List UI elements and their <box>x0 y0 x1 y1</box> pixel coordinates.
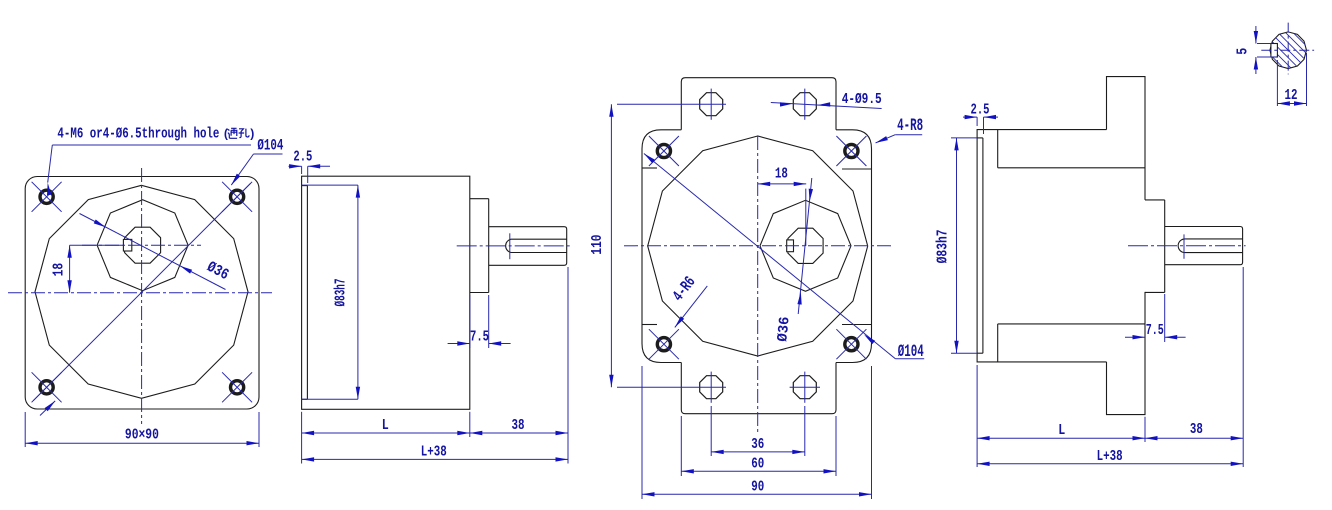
view 2 bottom extensions <box>302 267 568 464</box>
view 3 vertical centerline <box>757 136 759 433</box>
view 4 bearing boss <box>1145 200 1165 293</box>
view 4 bottom extensions <box>977 267 1243 467</box>
detail dim 12 extensions <box>1277 53 1306 106</box>
svg-text:36: 36 <box>751 437 764 453</box>
view 2 shaft keyway <box>506 239 567 252</box>
view 3 horizontal centerline <box>624 245 893 247</box>
view 4 dim 2.5 line+arrows <box>963 115 998 119</box>
view 3 hole cross bottom-left <box>649 329 679 359</box>
view 2 bearing boss <box>470 199 489 293</box>
detail keyway notch <box>1271 44 1278 58</box>
view 2 dim L text <box>382 418 389 434</box>
detail dim 12 line+arrows <box>1277 101 1306 105</box>
detail dim 5 line+arrows <box>1254 26 1258 74</box>
view 2 output shaft <box>489 227 567 266</box>
view 4 dim 7.5 extensions <box>1164 294 1166 342</box>
view 1 mounting flange square 90x90 <box>25 177 259 410</box>
view 4 flange top tab <box>1107 77 1146 200</box>
svg-text:38: 38 <box>1190 422 1203 438</box>
view 4 dim L text <box>1058 423 1065 439</box>
view 3 dim 90 extensions <box>642 366 872 499</box>
detail dim 5 text <box>1236 48 1252 55</box>
view 4 flange bottom tab <box>1107 292 1146 415</box>
view 4 shaft axis centerline <box>1128 245 1246 247</box>
view 1 hole cross top-right <box>222 182 252 212</box>
view 3 dim dia36 text <box>775 316 793 342</box>
view 3 dim 60 text <box>751 457 764 473</box>
view 3 pad inner edges <box>642 168 872 325</box>
view 4 dim L+38 line+arrows <box>977 462 1243 466</box>
view 3 dim 90 text <box>751 479 764 495</box>
detail crosshairs <box>1261 23 1314 75</box>
svg-text:Ø83h7: Ø83h7 <box>334 279 350 307</box>
view 2 dim 7.5 line+arrows <box>448 341 511 345</box>
svg-text:Ø83h7: Ø83h7 <box>936 229 952 263</box>
view 1 thread label underline + leader <box>47 145 251 195</box>
view 2 dim 7.5 text <box>470 329 489 345</box>
view 1 dim 90x90 text <box>125 428 159 444</box>
view 3 tab hole bottom-left <box>700 376 723 399</box>
view 4 dim 38 line+arrows <box>1145 436 1243 440</box>
view 1 bearing boss circle dia36 (octagon) <box>97 200 188 291</box>
svg-text:90: 90 <box>751 479 764 495</box>
view 1 vertical centerline <box>141 168 143 424</box>
view 3 tab hole crosshairs <box>696 89 820 403</box>
view 4 dim 38 text <box>1190 422 1203 438</box>
view 1 label dia104 <box>257 137 283 155</box>
view 2 keyway vertical centerline <box>509 233 511 259</box>
svg-text:7.5: 7.5 <box>470 329 489 345</box>
view 3 dim 60 extensions <box>681 416 836 476</box>
svg-text:110: 110 <box>590 235 606 255</box>
view 3 bolt hole top-left <box>657 144 670 157</box>
view 3 dim 36 line+arrows <box>711 450 805 454</box>
svg-text:18: 18 <box>52 263 68 277</box>
view 4 dim dia83h7 text <box>936 229 952 263</box>
view 3 label 4-R6 <box>669 273 707 327</box>
view 4 dim dia83h7 extensions <box>951 138 977 353</box>
view 1 dim 90x90 line <box>25 441 259 445</box>
view 2 dim 38 text <box>512 418 525 434</box>
view 1 dim dia36 line <box>80 214 226 290</box>
view 3 gearbox body circle (12-gon) <box>648 136 868 356</box>
view 3 dim dia36 line <box>798 178 812 314</box>
view 1 bolt hole bottom-right <box>231 381 244 394</box>
view 3 tab hole top-right <box>793 93 816 116</box>
view 3 tab hole top-left <box>700 93 723 116</box>
view 1 hole cross top-left <box>32 182 62 212</box>
view 4 dim 7.5 text <box>1146 323 1164 339</box>
view 3 dim 110 line+arrows <box>609 104 613 387</box>
svg-text:4-M6 or4-Ø6.5through hole: 4-M6 or4-Ø6.5through hole <box>57 126 219 142</box>
view 3 bottom mounting tab <box>681 363 836 414</box>
view 4 dim dia83h7 line+arrows <box>954 138 958 353</box>
view 1 horizontal centerline <box>8 292 272 294</box>
view 3 dim 110 extensions <box>617 104 696 387</box>
svg-text:): ) <box>249 127 256 141</box>
view 1 output shaft with keyway (octagon) <box>123 227 160 263</box>
svg-text:12: 12 <box>1285 88 1298 104</box>
svg-text:60: 60 <box>751 457 764 473</box>
view 4 body outline <box>977 130 1106 362</box>
view 4 dim 2.5 text <box>971 103 990 119</box>
view 2 dim 7.5 extensions <box>470 295 489 348</box>
view 3 dim 18 text <box>775 167 788 183</box>
view 3 dim 4-dia9.5 text <box>842 92 882 108</box>
view 1 bolt hole bottom-left <box>40 381 53 394</box>
view 3 hole cross bottom-right <box>836 329 866 359</box>
view 3 dim dia104 arrows <box>644 154 875 345</box>
view 2 shaft axis centerline <box>457 245 572 247</box>
view 1 gearbox body circle (12-gon) <box>35 185 248 398</box>
svg-text:4-Ø9.5: 4-Ø9.5 <box>842 92 882 108</box>
svg-text:2.5: 2.5 <box>293 150 312 166</box>
svg-text:38: 38 <box>512 418 525 434</box>
view 1 dim dia36 text <box>204 258 232 284</box>
view 1 dim 18 extension <box>70 244 123 246</box>
view 1 bolt hole top-right <box>231 190 244 203</box>
svg-text:Ø104: Ø104 <box>898 342 924 362</box>
view 4 tab edge lines <box>998 130 1145 362</box>
view 4 spigot register lip <box>977 138 983 353</box>
view 3 dim 60 line+arrows <box>681 469 836 473</box>
view 1 dim 18 text <box>52 263 68 277</box>
view 1 dim dia36 arrows <box>94 220 192 274</box>
view 2 gearbox body rectangle <box>302 176 470 409</box>
svg-text:7.5: 7.5 <box>1146 323 1164 339</box>
view 3 dim 36 extensions <box>711 406 805 456</box>
view 2 dim L+38 line+arrows <box>302 457 568 461</box>
svg-text:Ø36: Ø36 <box>775 316 793 342</box>
view 3 dim 4-dia9.5 leader <box>771 102 882 108</box>
svg-text:L: L <box>1058 423 1065 439</box>
svg-text:2.5: 2.5 <box>971 103 990 119</box>
svg-text:Ø104: Ø104 <box>257 137 283 155</box>
view 3 label 4-R8 <box>876 116 924 143</box>
view 2 dim 2.5 line+arrows <box>289 164 331 168</box>
view 4 dim 2.5 extensions <box>977 117 983 134</box>
view 1 bolt hole top-left <box>40 190 53 203</box>
svg-text:L+38: L+38 <box>1097 449 1123 465</box>
view 1 dim 90x90 extensions <box>25 412 259 447</box>
view 3 dim 18 extension <box>805 189 807 246</box>
view 1 bolt-circle diagonal <box>33 183 250 400</box>
view 4 keyway vertical centerline <box>1183 234 1185 258</box>
svg-text:4-R6: 4-R6 <box>669 273 699 305</box>
view 1 hole cross bottom-left <box>32 372 62 402</box>
detail dim 5 extensions <box>1257 44 1277 58</box>
view 3 square body with R8 corners <box>642 130 872 363</box>
view 1 thread label <box>57 126 255 142</box>
view 1 dia104 leader with arrow <box>231 154 282 185</box>
view 3 dim 18 line+arrows <box>758 182 807 186</box>
view 3 dim dia36 arrows <box>797 189 813 305</box>
view 2 dim L+38 text <box>421 445 447 461</box>
view 2 dim dia83h7 extensions <box>301 185 358 399</box>
view 3 top mounting tab <box>681 78 836 130</box>
view 3 bolt hole bottom-left <box>657 338 670 351</box>
view 3 bolt hole top-right <box>845 144 858 157</box>
detail dim 12 text <box>1285 88 1298 104</box>
view 3 bearing boss circle dia36 (octagon) <box>760 200 851 291</box>
detail hatching <box>1270 9 1307 91</box>
view 1 shaft horizontal centerline <box>82 244 201 246</box>
view 3 output shaft with keyway (octagon) <box>787 228 823 263</box>
view 2 spigot register lip <box>302 186 308 400</box>
svg-text:5: 5 <box>1236 48 1252 55</box>
view 3 dim 36 text <box>751 437 764 453</box>
svg-text:L: L <box>382 418 389 434</box>
svg-text:90×90: 90×90 <box>125 428 159 444</box>
view 4 dim 7.5 line+arrows <box>1125 335 1186 339</box>
view 4 dim L line+arrows <box>977 436 1145 440</box>
view 3 hole cross top-left <box>649 136 679 166</box>
view 2 dim 2.5 text <box>293 150 312 166</box>
view 2 dim 38 line+arrows <box>470 431 568 435</box>
view 3 dim dia104 line <box>644 154 924 359</box>
view 4 output shaft <box>1165 227 1243 265</box>
view 3 tab hole bottom-right <box>793 376 816 399</box>
detail shaft section circle <box>1270 32 1307 69</box>
svg-text:4-R8: 4-R8 <box>897 116 923 136</box>
view 3 dim dia104 text <box>898 342 924 362</box>
view 2 dim dia83h7 line+arrows <box>356 185 360 399</box>
view 3 dim 90 line+arrows <box>642 492 872 496</box>
view 1 dim 18 line+arrows <box>67 245 71 293</box>
view 2 dim L line+arrows <box>302 431 470 435</box>
svg-text:18: 18 <box>775 167 788 183</box>
svg-text:L+38: L+38 <box>421 445 447 461</box>
view 2 dim dia83h7 text <box>334 279 350 307</box>
view 2 dim 2.5 extensions <box>302 166 308 183</box>
view 3 dim 110 text <box>590 235 606 255</box>
view 1 hole cross bottom-right <box>222 372 252 402</box>
view 4 shaft keyway <box>1178 239 1242 253</box>
view 3 bolt hole bottom-right <box>845 338 858 351</box>
view 4 dim L+38 text <box>1097 449 1123 465</box>
view 3 hole cross top-right <box>836 136 866 166</box>
view 1 dia104 leader arrow bottom-left <box>40 401 55 416</box>
